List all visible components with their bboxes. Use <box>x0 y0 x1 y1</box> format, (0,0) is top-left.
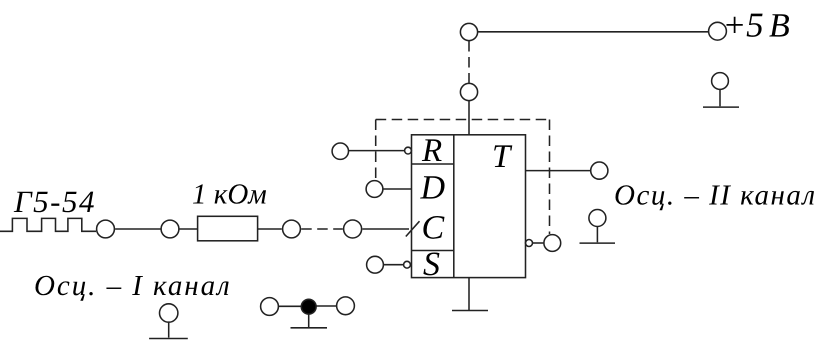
svg-text:R: R <box>421 133 442 169</box>
wire S terminal to S bubble <box>384 264 404 266</box>
terminal node Q-bar output <box>544 235 561 252</box>
common probe tee with junction dot <box>261 298 279 316</box>
wire D terminal to D pin <box>383 188 411 190</box>
terminal node c4 (C input) <box>344 220 362 238</box>
wire +5V rail <box>478 31 708 33</box>
wire c2 to resistor <box>180 228 198 230</box>
terminal node R input <box>332 143 348 159</box>
dashed wire c3 to c4 <box>301 228 343 230</box>
ground bar of tee <box>291 327 328 329</box>
ground below U1 <box>452 310 488 312</box>
svg-text:Осц. – I канал: Осц. – I канал <box>34 270 232 302</box>
flip-flop U1 pin column divider <box>453 135 455 278</box>
wire Q output <box>526 170 591 172</box>
svg-text:D: D <box>420 170 446 207</box>
terminal node D input <box>366 181 383 198</box>
terminal node Vcc of U1 <box>460 83 477 100</box>
resistor R1 (1 кОм) <box>198 216 258 241</box>
probe ground symbol near +5 V <box>712 73 729 90</box>
divider above S cell <box>412 250 454 252</box>
wire c1 to c2 <box>115 228 160 230</box>
probe ground symbol under channel I label <box>160 304 178 322</box>
wire resistor to c3 <box>258 228 282 230</box>
svg-text:S: S <box>423 246 440 283</box>
junction dot <box>301 299 316 314</box>
probe ground symbol under channel II label <box>589 210 606 227</box>
svg-text:Осц. – II канал: Осц. – II канал <box>614 180 817 212</box>
dashed net top edge <box>376 119 550 121</box>
terminal node c1 <box>97 220 115 238</box>
dashed net right drop to Q-bar terminal <box>549 120 551 235</box>
svg-text:+5: +5 <box>723 6 764 45</box>
inversion bubble on S pin <box>404 261 411 268</box>
terminal node Q output <box>591 162 608 179</box>
wire Q-bar bubble to terminal <box>533 242 544 244</box>
dashed link supply node to Vcc terminal <box>468 41 470 83</box>
wire U1 bottom to ground <box>468 278 470 311</box>
node at top of supply branch <box>460 23 477 40</box>
svg-text:В: В <box>769 8 790 45</box>
wire Vcc terminal to U1 top <box>468 101 470 135</box>
divider under R cell <box>412 163 454 165</box>
terminal node S input <box>367 256 384 273</box>
terminal node c3 <box>283 220 301 238</box>
inversion bubble on R pin <box>405 147 412 154</box>
wire c4 to C pin <box>362 228 409 230</box>
terminal node +5 V <box>709 22 727 40</box>
dashed net left drop to D terminal <box>375 120 377 181</box>
terminal node c2 <box>161 220 179 238</box>
svg-text:1 кОм: 1 кОм <box>192 179 267 211</box>
inversion bubble on Q-bar output <box>526 240 533 247</box>
flip-flop U1 body <box>412 135 526 278</box>
dynamic input slash on C pin <box>406 221 420 236</box>
stem of tee to ground <box>308 314 310 327</box>
svg-text:C: C <box>422 210 445 247</box>
pulse waveform (generator output) <box>0 218 96 231</box>
svg-text:Г5-54: Г5-54 <box>13 184 96 219</box>
wire R terminal to R bubble <box>349 150 405 152</box>
svg-text:T: T <box>492 139 513 175</box>
